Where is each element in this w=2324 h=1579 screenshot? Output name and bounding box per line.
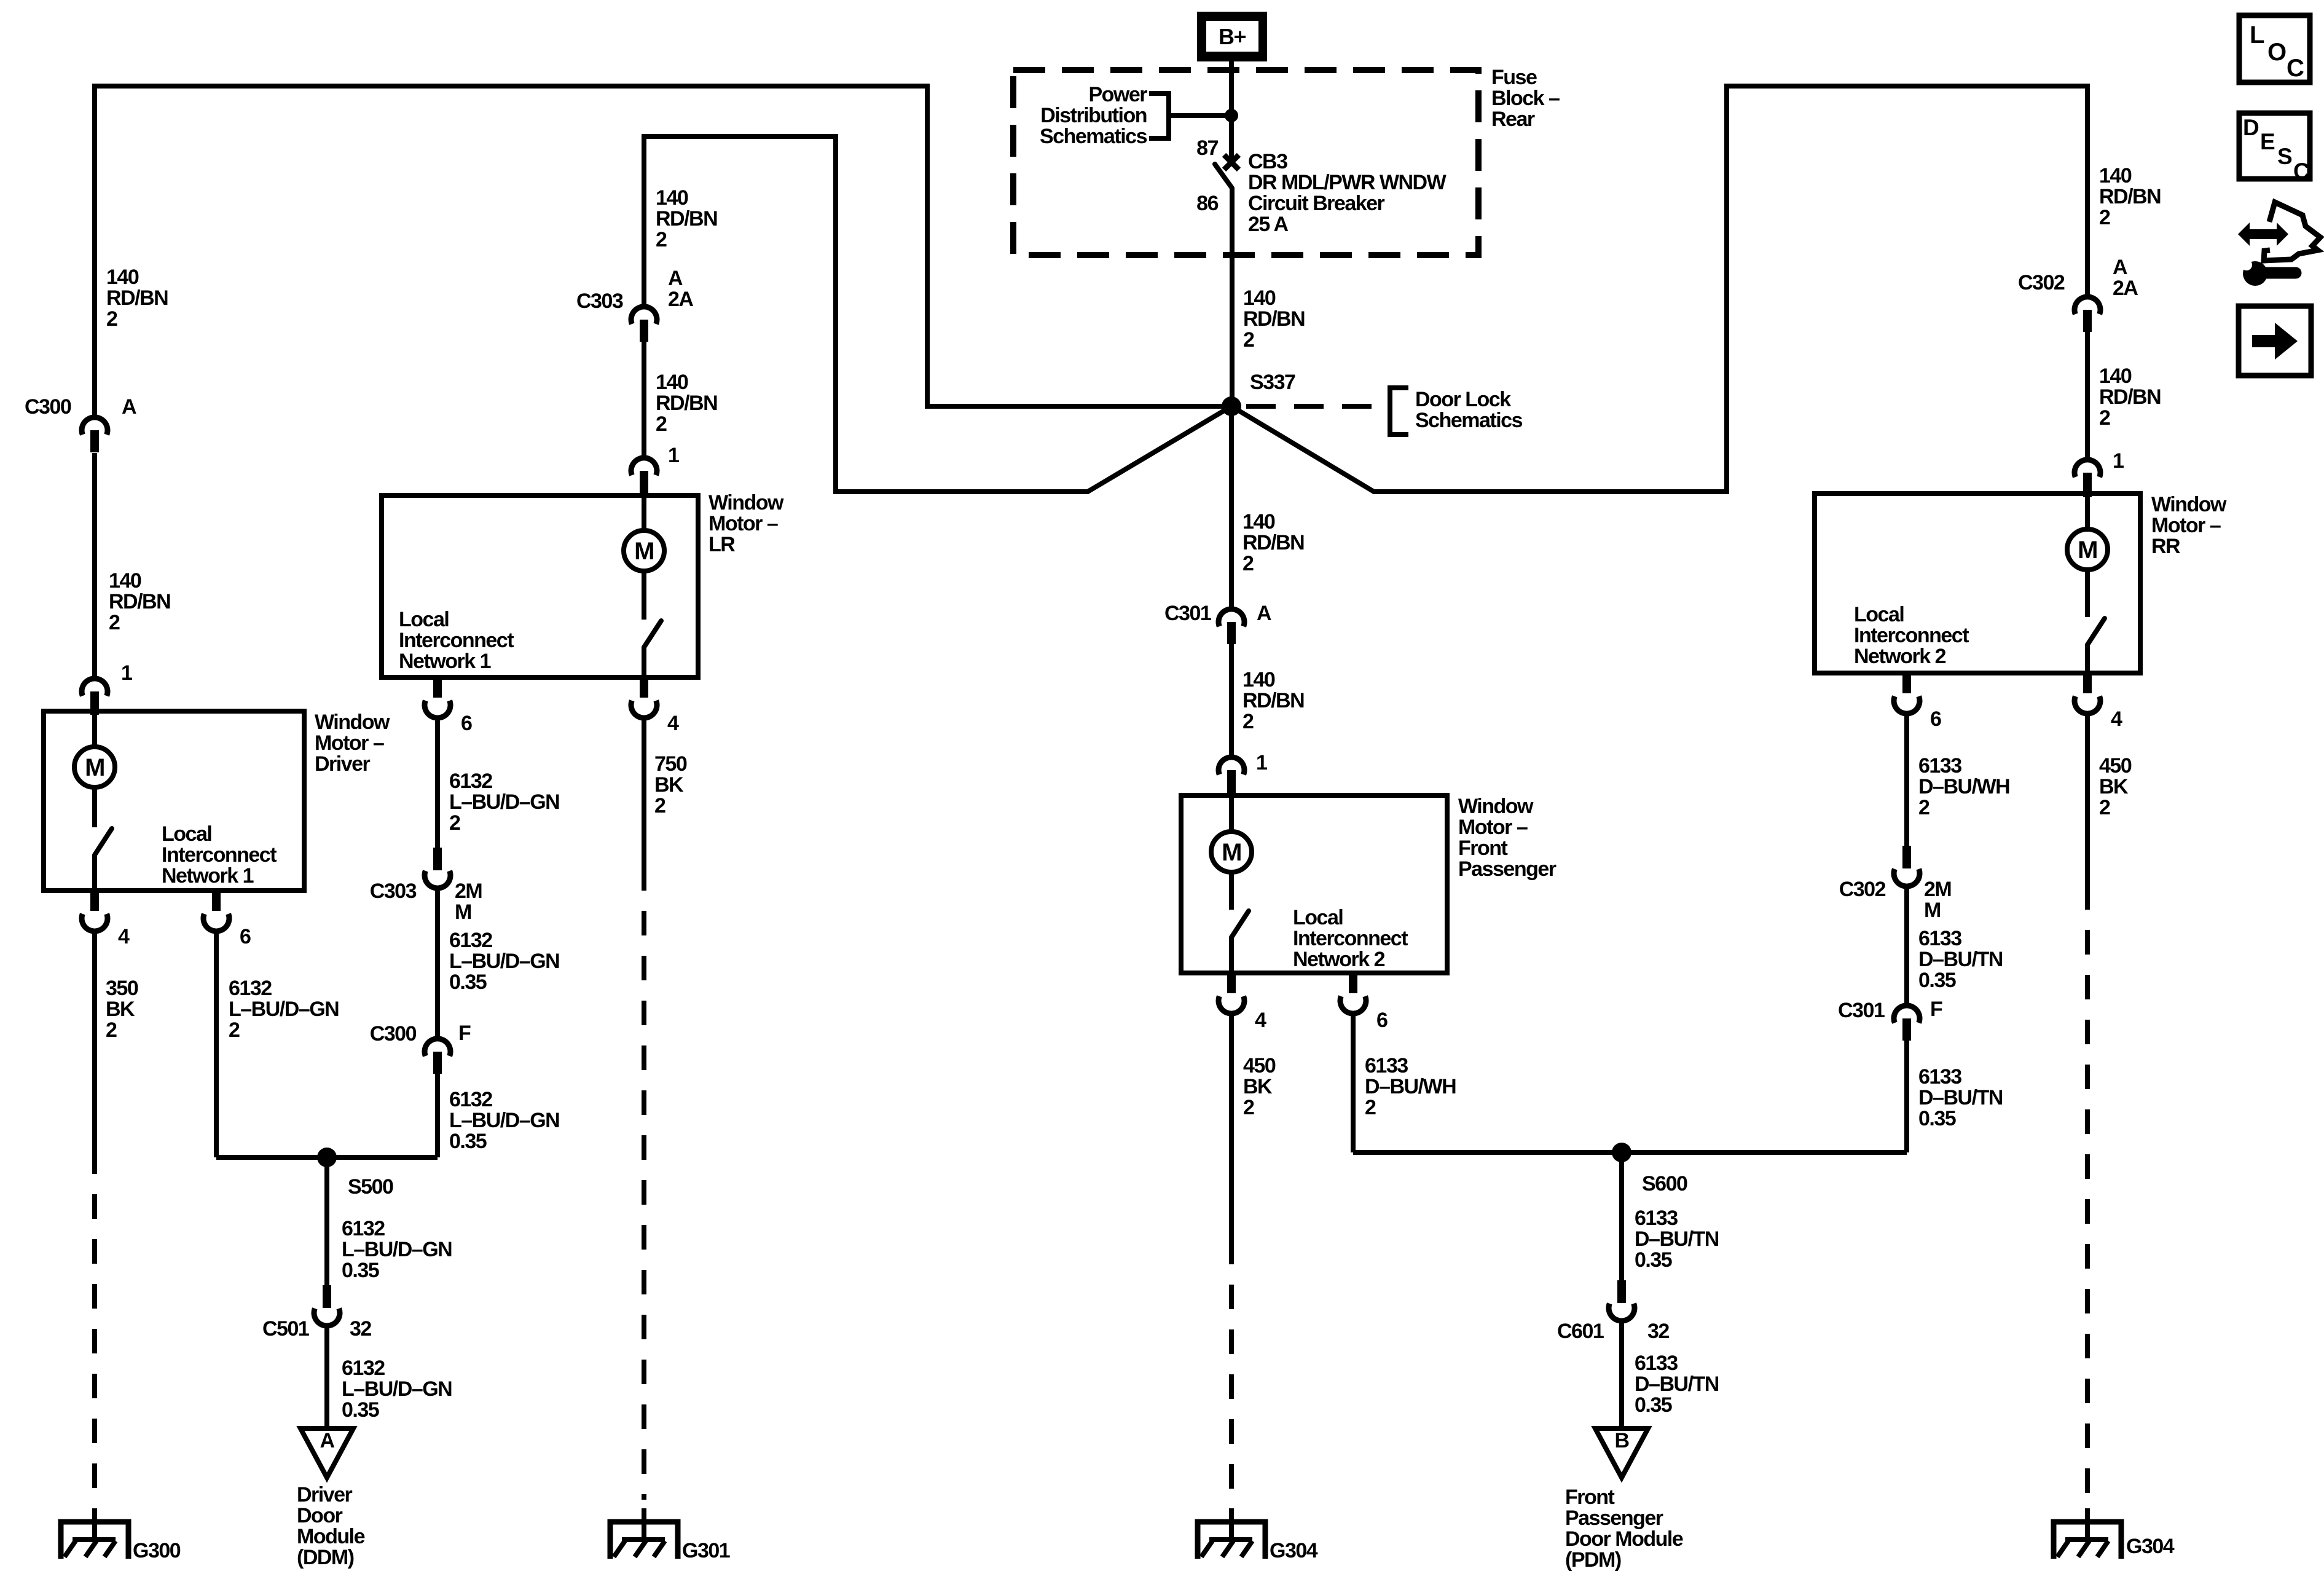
wire C303 to LR window motor (642, 342, 646, 458)
svg-text:L–BU/D–GN: L–BU/D–GN (449, 950, 559, 973)
svg-text:Schematics: Schematics (1040, 125, 1147, 148)
wire C300 to driver window motor (92, 453, 97, 679)
svg-text:M: M (2078, 537, 2097, 564)
svg-text:4: 4 (667, 712, 679, 735)
svg-text:G300: G300 (133, 1539, 181, 1562)
svg-text:RD/BN: RD/BN (1242, 531, 1304, 554)
svg-text:(DDM): (DDM) (297, 1546, 354, 1569)
svg-text:LR: LR (709, 533, 735, 556)
svg-text:A: A (122, 395, 136, 419)
svg-text:1: 1 (1256, 751, 1267, 774)
svg-text:G304: G304 (2126, 1535, 2175, 1558)
pin 4 of RR motor (2083, 673, 2092, 693)
ground G304 (front passenger) (1198, 1522, 1265, 1559)
svg-text:CB3: CB3 (1248, 150, 1287, 173)
svg-text:M: M (634, 538, 654, 565)
svg-text:RR: RR (2151, 535, 2180, 558)
svg-text:2: 2 (2099, 406, 2110, 430)
svg-text:2: 2 (1365, 1096, 1376, 1119)
svg-text:C501: C501 (262, 1317, 309, 1341)
wire pin4 FP to ground G304 (450 BK 2) (1229, 1014, 1234, 1240)
svg-text:M: M (1924, 899, 1941, 922)
svg-text:C302: C302 (1839, 878, 1886, 901)
svg-text:C302: C302 (2018, 271, 2065, 294)
connector terminal 1 at RR motor (2075, 460, 2100, 477)
wire horizontal into splice S500 (216, 1155, 438, 1160)
svg-text:RD/BN: RD/BN (109, 590, 170, 613)
svg-text:2: 2 (656, 228, 667, 251)
svg-text:4: 4 (1255, 1009, 1266, 1032)
svg-text:Passenger: Passenger (1458, 857, 1557, 881)
svg-text:L–BU/D–GN: L–BU/D–GN (342, 1238, 452, 1261)
svg-text:RD/BN: RD/BN (106, 286, 168, 310)
svg-text:6132: 6132 (449, 770, 492, 793)
svg-text:C300: C300 (370, 1022, 417, 1045)
connector C300 terminal F (LIN1) (425, 1039, 450, 1056)
svg-text:Local: Local (1854, 603, 1904, 626)
svg-text:C301: C301 (1838, 999, 1885, 1022)
svg-text:Window: Window (2151, 493, 2227, 516)
svg-text:6132: 6132 (229, 977, 272, 1000)
pin 4 of LR motor (640, 677, 648, 698)
icon DESC box (2239, 113, 2310, 179)
svg-text:Motor –: Motor – (315, 731, 384, 755)
connector C303 terminal 2M M (LIN1) (433, 848, 442, 870)
svg-text:Schematics: Schematics (1415, 409, 1523, 432)
svg-text:C303: C303 (576, 289, 623, 313)
switch in RR motor (2085, 570, 2090, 617)
svg-text:M: M (455, 900, 471, 924)
dashed wire S337 to door lock schematics (1246, 404, 1390, 409)
svg-text:Network 2: Network 2 (1293, 948, 1385, 971)
svg-text:6132: 6132 (342, 1357, 385, 1380)
svg-text:140: 140 (1243, 286, 1276, 310)
connector C303 terminal A 2A (LR feed) (631, 307, 657, 324)
svg-text:Interconnect: Interconnect (1854, 624, 1969, 647)
svg-text:D–BU/TN: D–BU/TN (1635, 1372, 1719, 1396)
svg-text:DR MDL/PWR WNDW: DR MDL/PWR WNDW (1248, 171, 1447, 194)
svg-text:RD/BN: RD/BN (656, 392, 717, 415)
svg-text:140: 140 (656, 186, 688, 210)
svg-text:Passenger: Passenger (1565, 1506, 1663, 1530)
icon double arrow with wrench (2238, 222, 2288, 246)
svg-text:A: A (1257, 602, 1271, 625)
node power distribution tap junction (1225, 109, 1238, 122)
wire C501 to DDM triangle (324, 1326, 329, 1428)
svg-text:140: 140 (2099, 164, 2132, 187)
svg-text:Door Lock: Door Lock (1415, 388, 1511, 411)
wire feed to RR window motor (diagonal from S337) (1231, 86, 2087, 492)
splice S600 (1612, 1143, 1631, 1162)
svg-text:S337: S337 (1250, 371, 1295, 394)
svg-text:1: 1 (668, 444, 679, 467)
svg-text:6: 6 (1930, 707, 1941, 731)
svg-text:6133: 6133 (1918, 754, 1961, 778)
svg-text:2: 2 (106, 307, 117, 331)
svg-text:Network 1: Network 1 (399, 650, 491, 673)
svg-text:M: M (85, 754, 104, 781)
svg-text:0.35: 0.35 (449, 1130, 487, 1153)
pin 4 of driver motor (90, 891, 99, 911)
ground G304 (RR) (2054, 1522, 2121, 1559)
svg-text:2: 2 (109, 611, 120, 634)
svg-text:Power: Power (1088, 83, 1147, 106)
wire pin4 RR to ground G304 (450 BK 2) (2085, 714, 2090, 885)
wire pin4 LR to ground G301 (750 BK 2) (642, 718, 646, 866)
switch in LR motor (642, 571, 646, 620)
svg-text:(PDM): (PDM) (1565, 1548, 1621, 1572)
svg-text:140: 140 (656, 371, 688, 394)
svg-text:Door: Door (297, 1504, 343, 1527)
wire C302 to RR window motor (2085, 332, 2090, 460)
circuit breaker CB3 contact X (1224, 155, 1239, 170)
svg-text:2: 2 (656, 412, 667, 436)
splice S337 (1222, 396, 1241, 416)
svg-text:2: 2 (449, 811, 460, 835)
svg-text:Circuit Breaker: Circuit Breaker (1248, 192, 1385, 215)
switch in FP motor (1229, 872, 1234, 910)
svg-text:140: 140 (109, 569, 141, 593)
svg-text:2A: 2A (2113, 277, 2138, 300)
svg-text:2M: 2M (455, 880, 482, 903)
svg-text:Local: Local (399, 608, 449, 631)
svg-text:RD/BN: RD/BN (656, 207, 717, 230)
window motor - RR box (1815, 494, 2140, 673)
battery feed B+ symbol (1197, 12, 1267, 61)
svg-text:C: C (2287, 55, 2304, 82)
svg-text:RD/BN: RD/BN (1242, 689, 1304, 712)
svg-text:6132: 6132 (342, 1217, 385, 1240)
svg-text:32: 32 (350, 1317, 371, 1341)
svg-text:Local: Local (162, 822, 211, 846)
svg-text:Door Module: Door Module (1565, 1527, 1683, 1551)
svg-text:L–BU/D–GN: L–BU/D–GN (342, 1377, 452, 1401)
svg-text:Module: Module (297, 1525, 365, 1548)
bracket to Door Lock Schematics (1390, 388, 1408, 435)
svg-text:D: D (2243, 115, 2259, 140)
svg-text:0.35: 0.35 (1918, 1107, 1956, 1130)
pin 6 of LR motor (LIN) (433, 677, 442, 698)
svg-text:2: 2 (1918, 796, 1929, 819)
svg-text:D–BU/WH: D–BU/WH (1365, 1075, 1456, 1098)
switch in driver motor (92, 787, 97, 827)
svg-text:D–BU/WH: D–BU/WH (1918, 775, 2009, 798)
svg-text:Block –: Block – (1491, 87, 1560, 110)
svg-text:750: 750 (654, 752, 687, 776)
connector C501 terminal 32 (323, 1285, 331, 1308)
svg-text:140: 140 (2099, 364, 2132, 388)
svg-text:Interconnect: Interconnect (1293, 927, 1408, 950)
wire pin6 RR LIN down (1904, 714, 1909, 846)
svg-text:Rear: Rear (1491, 108, 1535, 131)
svg-text:2: 2 (654, 794, 665, 817)
svg-text:L–BU/D–GN: L–BU/D–GN (449, 1109, 559, 1132)
svg-text:C601: C601 (1557, 1320, 1604, 1343)
svg-text:6: 6 (240, 925, 251, 948)
pin 4 of FP motor (1227, 973, 1236, 993)
svg-text:BK: BK (2099, 775, 2129, 798)
svg-text:B: B (1614, 1429, 1629, 1452)
svg-text:350: 350 (106, 977, 138, 1000)
svg-text:F: F (458, 1022, 471, 1045)
svg-text:Window: Window (1458, 795, 1534, 818)
pin 6 of RR motor (LIN) (1902, 673, 1911, 693)
svg-text:Driver: Driver (297, 1483, 353, 1506)
svg-text:2: 2 (106, 1018, 117, 1042)
svg-text:32: 32 (1647, 1320, 1669, 1343)
svg-text:Motor –: Motor – (2151, 514, 2221, 537)
svg-text:6133: 6133 (1635, 1207, 1678, 1230)
svg-text:25 A: 25 A (1248, 213, 1289, 236)
svg-text:1: 1 (2113, 449, 2124, 473)
svg-text:S: S (2277, 144, 2292, 169)
svg-text:2: 2 (2099, 796, 2110, 819)
svg-text:Distribution: Distribution (1040, 104, 1147, 127)
connector C301 terminal F (LIN2) (1894, 1006, 1920, 1023)
svg-text:2: 2 (1242, 710, 1254, 733)
wire C303 to C300 (6132 0.35) (435, 888, 440, 1039)
svg-text:Fuse: Fuse (1491, 66, 1537, 89)
wire top feed left (S337 to driver window motor) (95, 86, 1231, 417)
svg-text:6132: 6132 (449, 1088, 492, 1111)
motor M LR (642, 498, 646, 530)
svg-text:0.35: 0.35 (342, 1398, 379, 1422)
svg-text:F: F (1930, 998, 1942, 1021)
wire horizontal FP LIN to RR LIN with splice S600 (1353, 1150, 1907, 1155)
svg-text:6: 6 (1376, 1009, 1388, 1032)
svg-text:RD/BN: RD/BN (2099, 185, 2161, 208)
off-page triangle A to Driver Door Module (300, 1428, 353, 1478)
svg-text:4: 4 (2111, 707, 2122, 731)
svg-text:C301: C301 (1164, 602, 1211, 625)
wire C301 F down and left to S600 (1904, 1041, 1909, 1152)
wire C302 to C301 (6133 0.35) (1904, 886, 1909, 1006)
svg-text:2A: 2A (668, 288, 693, 311)
wire C601 to PDM triangle (1619, 1321, 1624, 1428)
svg-text:A: A (2113, 256, 2127, 279)
connector C302 terminal A 2A (RR feed) (2075, 297, 2100, 314)
connector terminal 1 at FP motor (1219, 757, 1244, 774)
svg-text:1: 1 (121, 661, 132, 685)
svg-text:6: 6 (461, 712, 472, 735)
svg-text:O: O (2267, 39, 2286, 66)
svg-text:L–BU/D–GN: L–BU/D–GN (449, 790, 559, 814)
connector terminal 1 at LR window motor (631, 458, 657, 475)
svg-text:Interconnect: Interconnect (162, 843, 277, 867)
pin 6 of driver motor (212, 891, 221, 911)
wire S600 down to PDM (1619, 1152, 1624, 1280)
svg-text:G304: G304 (1270, 1539, 1318, 1562)
svg-text:M: M (1222, 839, 1241, 866)
svg-text:S500: S500 (348, 1175, 393, 1199)
svg-text:2: 2 (1243, 1096, 1254, 1119)
wire CB3 to splice S337 (1230, 188, 1235, 406)
svg-text:E: E (2260, 129, 2275, 154)
svg-text:D–BU/TN: D–BU/TN (1635, 1227, 1719, 1251)
svg-text:2: 2 (1243, 328, 1254, 352)
svg-text:140: 140 (106, 266, 139, 289)
ground G301 (610, 1522, 678, 1559)
connector C301 terminal A (1219, 609, 1244, 626)
svg-text:450: 450 (1243, 1054, 1276, 1077)
svg-text:Driver: Driver (315, 752, 371, 776)
svg-text:Interconnect: Interconnect (399, 629, 514, 652)
wire pin6 LR LIN down (6132 L-BU/D-GN 2) (435, 718, 440, 848)
svg-text:140: 140 (1242, 510, 1275, 534)
icon LOC box (2239, 15, 2310, 82)
svg-text:A: A (320, 1429, 334, 1452)
svg-text:Front: Front (1565, 1486, 1615, 1509)
wire from power distribution tap to B+ feed (1169, 113, 1231, 118)
svg-text:Local: Local (1293, 906, 1343, 929)
svg-text:C300: C300 (25, 395, 71, 419)
svg-text:4: 4 (118, 925, 130, 948)
wire pin4 driver to ground G300 (350 BK 2) (92, 931, 97, 1149)
svg-text:6133: 6133 (1918, 1065, 1961, 1089)
motor M driver (92, 715, 97, 747)
svg-text:Network 2: Network 2 (1854, 645, 1946, 668)
connector C302 terminal 2M M (LIN2) (1902, 846, 1911, 868)
svg-text:C303: C303 (370, 880, 417, 903)
svg-text:0.35: 0.35 (342, 1259, 379, 1282)
svg-text:140: 140 (1242, 668, 1275, 691)
wire B+ down to circuit breaker CB3 (1229, 59, 1234, 159)
svg-text:D–BU/TN: D–BU/TN (1918, 1086, 2003, 1109)
svg-text:A: A (668, 267, 683, 290)
svg-text:6132: 6132 (449, 929, 492, 952)
svg-text:86: 86 (1196, 192, 1218, 215)
svg-text:0.35: 0.35 (449, 971, 487, 994)
svg-text:6133: 6133 (1918, 927, 1961, 950)
svg-text:6133: 6133 (1635, 1352, 1678, 1375)
svg-text:0.35: 0.35 (1635, 1393, 1672, 1417)
connector C300 terminal A (driver feed) (82, 417, 108, 435)
svg-text:2: 2 (229, 1018, 240, 1042)
bracket to Power Distribution Schematics (1149, 93, 1169, 138)
svg-text:6133: 6133 (1365, 1054, 1408, 1077)
svg-text:G301: G301 (682, 1539, 730, 1562)
off-page triangle B to Front Passenger Door Module (1595, 1428, 1648, 1478)
motor M RR (2085, 496, 2090, 529)
svg-text:S600: S600 (1642, 1172, 1687, 1195)
window motor - front passenger box (1181, 795, 1447, 973)
icon right arrow box (2239, 306, 2311, 376)
svg-text:0.35: 0.35 (1635, 1248, 1672, 1272)
svg-text:C: C (2293, 159, 2309, 184)
svg-text:Window: Window (709, 491, 784, 514)
circuit breaker CB3 blade (1215, 164, 1232, 188)
wire pin6 driver LIN down to S500 (214, 931, 219, 1157)
svg-text:Window: Window (315, 711, 390, 734)
svg-text:RD/BN: RD/BN (1243, 307, 1305, 331)
connector C601 terminal 32 (1617, 1280, 1626, 1303)
window motor - LR box (382, 495, 698, 677)
fuse block - rear dashed boundary (1013, 70, 1478, 255)
wire pin6 FP LIN to S600 (1351, 1014, 1356, 1152)
wire C301 to FP motor (1229, 644, 1234, 757)
svg-text:2M: 2M (1924, 878, 1951, 901)
svg-text:450: 450 (2099, 754, 2132, 778)
window motor - driver box (44, 711, 304, 891)
svg-text:D–BU/TN: D–BU/TN (1918, 948, 2003, 971)
svg-text:Motor –: Motor – (1458, 816, 1528, 839)
svg-text:Front: Front (1458, 837, 1508, 860)
svg-text:L–BU/D–GN: L–BU/D–GN (229, 998, 339, 1021)
svg-text:2: 2 (1242, 552, 1254, 575)
motor M front passenger (1229, 798, 1234, 832)
svg-text:BK: BK (654, 773, 684, 797)
svg-text:0.35: 0.35 (1918, 969, 1956, 992)
svg-text:Network 1: Network 1 (162, 864, 254, 888)
pin 6 of FP motor (LIN) (1349, 973, 1357, 993)
svg-text:B+: B+ (1219, 24, 1246, 49)
wire C300 F down to S500 (435, 1074, 440, 1157)
wire S337 down to front passenger motor (1229, 406, 1234, 609)
connector terminal 1 at driver window motor (82, 679, 108, 696)
svg-text:BK: BK (106, 998, 135, 1021)
svg-text:Motor –: Motor – (709, 512, 778, 535)
wire feed to LR window motor (diagonal from S337) (644, 136, 1231, 492)
svg-text:87: 87 (1196, 136, 1218, 160)
splice S500 (317, 1148, 337, 1167)
svg-text:BK: BK (1243, 1075, 1273, 1098)
ground G300 (61, 1522, 128, 1559)
svg-text:RD/BN: RD/BN (2099, 385, 2161, 409)
svg-text:L: L (2250, 22, 2264, 49)
svg-text:2: 2 (2099, 206, 2110, 229)
wire S500 to DDM (324, 1157, 329, 1285)
